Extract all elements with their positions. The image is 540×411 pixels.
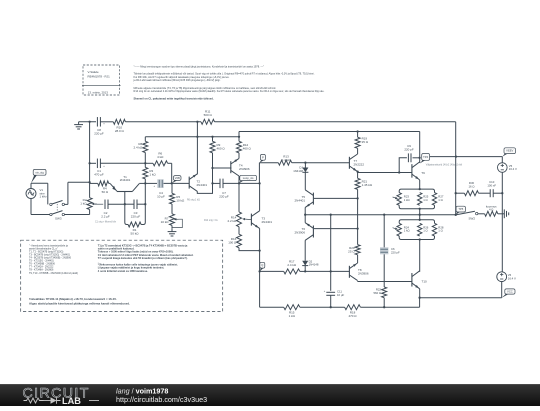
resistor koormus: [485, 211, 498, 216]
svg-text:R14 orig = 1k: R14 orig = 1k: [204, 219, 219, 222]
V6 value label: [508, 273, 516, 280]
T3 base wire: [242, 218, 251, 221]
T7 name label: [354, 159, 365, 167]
label bubble VCC: [502, 289, 515, 298]
R27 value label: [438, 195, 444, 202]
svg-text:2N2222: 2N2222: [354, 163, 365, 167]
wire rail A to R8: [144, 137, 146, 142]
R23 value label: [404, 195, 410, 202]
switch SW3 pole2: [50, 211, 65, 216]
resistor R23: [397, 193, 401, 206]
junction T1 base node: [124, 203, 126, 205]
junction input node: [88, 181, 90, 183]
R7 wiper return wire: [172, 219, 182, 227]
D2 value label: [309, 259, 319, 266]
wire bank2 to T10 collector: [419, 240, 421, 272]
svg-text:500 Ω: 500 Ω: [204, 113, 213, 117]
svg-text:1 kΩ: 1 kΩ: [289, 314, 296, 318]
svg-text:VEEV: VEEV: [506, 149, 513, 153]
junction D2 bottom: [304, 270, 306, 272]
wire T6 base node to R20: [357, 229, 359, 245]
wire input node horizontal: [68, 181, 90, 183]
wire R13 to D1 node: [292, 162, 306, 164]
T4 name label: [239, 164, 250, 172]
switch SW2: [456, 211, 478, 215]
svg-text:4 kΩ: 4 kΩ: [157, 155, 164, 159]
header note para1: [133, 72, 315, 86]
wire R19 top to rail B: [357, 132, 359, 138]
note valjatransistorid: [426, 163, 463, 166]
R2 wiper to C2 wire: [94, 203, 103, 205]
wire P corner down: [258, 163, 260, 184]
svg-text:2.4 kΩ: 2.4 kΩ: [133, 146, 143, 150]
junction T3 collector node: [258, 182, 260, 184]
junction V2B node: [171, 182, 173, 184]
wire R9 node down to C7 wire: [212, 168, 214, 183]
resistor R14 potentiometer: [237, 212, 242, 227]
junction T10 emitter: [418, 297, 420, 299]
svg-text:Algas alatid plaadile kinnituv: Algas alatid plaadile kinnituvad plätkut…: [29, 302, 130, 306]
svg-text:100 nF: 100 nF: [487, 184, 496, 188]
resistor R15: [284, 305, 300, 310]
C2 value label: [101, 211, 110, 219]
wire V5 down: [501, 172, 503, 272]
wire up to input node: [67, 182, 69, 204]
wire V5 top: [501, 157, 503, 163]
wire T10 emitter to VCC: [420, 297, 502, 299]
wire R14 to R16: [238, 227, 240, 234]
wire down to SW3 pole1: [47, 183, 49, 204]
wire SW2 to koormus: [478, 213, 485, 215]
wire C11 branch: [330, 271, 332, 290]
CircuitLab logo symbol: [24, 396, 100, 406]
svg-text:V2B: V2B: [175, 176, 180, 180]
R6 value label: [157, 152, 164, 160]
junction input column top: [88, 121, 90, 123]
label bubble P: [259, 154, 265, 162]
svg-text:220 µF: 220 µF: [94, 132, 104, 136]
svg-text:100 Ω: 100 Ω: [228, 241, 237, 245]
wire V1 bottom down: [30, 199, 32, 215]
svg-text:.: .: [134, 82, 135, 85]
wire D2 to Q wire: [304, 266, 306, 272]
wire R20 to T8 emitter: [357, 255, 359, 263]
wire R2 bottom stub: [89, 210, 91, 215]
junction T3 emitter node: [258, 249, 260, 251]
header note para2: [134, 86, 325, 93]
svg-text:T7 soojendi käega katsudes ehk: T7 soojendi käega katsudes ehk 50 kraadi…: [98, 256, 188, 260]
R14 value label: [228, 215, 238, 223]
wire SW3 pole1 right up: [65, 203, 68, 205]
junction output left: [304, 214, 306, 216]
svg-text:470 µF: 470 µF: [94, 173, 104, 177]
resistor R1: [128, 222, 141, 227]
SW3 label: [55, 217, 62, 221]
wire T7 emitter to T9 base: [358, 172, 412, 174]
wire R9 to T4 base node: [212, 153, 214, 168]
wire x455 vertical: [455, 157, 457, 215]
wire corner down to main wire: [171, 163, 173, 183]
wire V2B node to R5: [171, 183, 173, 193]
R26 value label: [423, 225, 429, 232]
label bubble vin_sig: [31, 169, 46, 183]
svg-text:10 kΩ: 10 kΩ: [176, 199, 185, 203]
koormus label: [486, 204, 497, 211]
wire R30 row left: [456, 192, 465, 194]
svg-text:TP4: TP4: [423, 155, 428, 159]
svg-text:2N4401: 2N4401: [262, 220, 273, 224]
svg-text:4 Ω: 4 Ω: [489, 208, 493, 212]
resistor R5: [170, 193, 175, 204]
svg-text:Q: Q: [261, 263, 263, 267]
C1 value label: [94, 169, 104, 177]
wire D2 node to T8 base: [305, 270, 349, 272]
junction T7 emitter: [356, 170, 358, 172]
R8 value label: [133, 142, 143, 150]
svg-text:50 kΩ: 50 kΩ: [131, 232, 140, 236]
svg-text:1 Ω: 1 Ω: [423, 198, 427, 202]
wire Q to R17: [260, 270, 284, 272]
wire T5 base node to T6 base node: [357, 198, 359, 228]
wire T3 collector up: [259, 183, 261, 210]
wire C2 to T1 base node: [108, 203, 124, 205]
wire T8 collector to T10 base: [358, 281, 412, 283]
svg-text:+: +: [324, 290, 326, 293]
wire V1 top up: [30, 183, 32, 188]
wire rail A to R12: [238, 137, 240, 142]
resistor R3: [143, 167, 148, 179]
C9 value label: [404, 144, 414, 152]
wire C10 to V5 line: [493, 192, 502, 194]
R12 value label: [243, 143, 252, 151]
wire V1 top right: [31, 182, 48, 184]
SW2 label: [469, 217, 476, 221]
bottom note footer lines: [29, 297, 130, 305]
svg-text:2N3906: 2N3906: [239, 167, 250, 171]
svg-text:C1 orig + filtered kile: C1 orig + filtered kile: [95, 221, 117, 224]
resistor R19: [355, 137, 360, 148]
wire D1 to T5 collector: [304, 172, 306, 190]
R10 value label: [115, 125, 125, 133]
source V5: [498, 163, 508, 173]
svg-text:1 kHz: 1 kHz: [40, 195, 48, 199]
T6 name label: [294, 227, 305, 235]
svg-text:16.4 V: 16.4 V: [509, 167, 517, 171]
wire D1 node to T7 base: [305, 162, 349, 164]
C3 value label: [131, 211, 141, 219]
svg-text:VCC: VCC: [507, 290, 513, 294]
wire R9 node to T4 base: [213, 167, 232, 169]
svg-text:2N4401: 2N4401: [120, 178, 131, 182]
note R6 orig: [187, 199, 200, 202]
ground G1 top-left: [74, 122, 83, 129]
junction bank2 top: [419, 219, 421, 221]
wire C7 left: [213, 182, 220, 184]
capacitor C3: [134, 199, 137, 209]
C8 value label: [94, 128, 104, 136]
wire C3 to R1 node: [137, 203, 145, 205]
resistor R22: [382, 287, 387, 298]
junction R3 main wire: [144, 182, 146, 184]
svg-text:Skeemil on CL pakutavad mitte: Skeemil on CL pakutavad mitte tegelikud …: [134, 97, 214, 101]
transistor T7: [349, 154, 357, 172]
resistor R24: [397, 223, 401, 236]
wire V5 wire right: [456, 156, 502, 158]
transistor T8: [349, 263, 357, 281]
svg-text:10 kΩ: 10 kΩ: [161, 220, 170, 224]
wire R16 bottom corner: [239, 248, 260, 251]
resistor R9: [210, 141, 215, 153]
junction R11 left: [196, 121, 198, 123]
junction output corner R30: [455, 192, 457, 194]
T3 name label: [262, 216, 273, 224]
svg-text:10 µF: 10 µF: [157, 194, 165, 198]
svg-text:1 Ω: 1 Ω: [438, 198, 442, 202]
wire T6 collector down to D2: [304, 240, 306, 260]
bottom note col2: [98, 243, 194, 273]
wire C11 to bottom rail: [330, 295, 332, 307]
wire bottom rail left: [260, 306, 284, 308]
wire V1 bottom right: [31, 214, 50, 216]
svg-text:2.4 kΩ: 2.4 kΩ: [287, 263, 297, 267]
junction C9 left bottom: [398, 171, 400, 173]
resistor R7 potentiometer: [170, 214, 180, 226]
resistor R10: [113, 119, 125, 124]
svg-text:2N3906: 2N3906: [358, 271, 369, 275]
wire T1 to R3 node: [139, 182, 145, 184]
capacitor C4: [153, 179, 163, 188]
transistor T9: [412, 162, 420, 180]
svg-text:T10: T10: [422, 280, 428, 284]
wire T7 emitter to R21: [357, 173, 359, 179]
wire T6 base right: [314, 228, 358, 230]
wire C1 to node: [100, 162, 145, 164]
wire C7 right to T4 node: [223, 182, 260, 184]
R4 value label: [102, 187, 109, 195]
junction C11 top: [330, 270, 332, 272]
svg-text:ja R14 abil saab tähised mõõra: ja R14 abil saab tähised mõõrata (30mA) …: [133, 78, 221, 82]
junction R22 bottom: [383, 306, 385, 308]
wire T1 node to C3: [125, 203, 134, 205]
capacitor C11: [324, 290, 335, 295]
wire R3 bottom to main wire: [144, 179, 146, 184]
footer bar: [0, 384, 540, 406]
capacitor C8: [97, 117, 105, 127]
svg-text:1 kΩ: 1 kΩ: [404, 229, 410, 233]
resistor R30: [464, 191, 478, 196]
junction T4 collector node: [238, 182, 240, 184]
svg-text:R6 orig 1 kΩ: R6 orig 1 kΩ: [187, 199, 200, 202]
svg-text:13. märts, 2013: 13. märts, 2013: [88, 91, 108, 95]
wire T5 emitter down: [304, 207, 306, 214]
svg-text:1.45 kΩ: 1.45 kΩ: [362, 183, 373, 187]
T5 name label: [294, 195, 305, 203]
svg-text:460 Ω: 460 Ω: [243, 147, 252, 151]
wire R7 bottom to ground: [171, 225, 173, 228]
junction D1 top: [304, 162, 306, 164]
wire output to C6: [383, 215, 385, 248]
wire T3 emitter down: [259, 228, 261, 250]
capacitor C9: [408, 153, 411, 162]
resistor R25: [418, 193, 422, 206]
junction V5 R30 row: [501, 192, 503, 194]
svg-text:T9, T10 - KT805B - 2SC5200 (14: T9, T10 - KT805B - 2SC5200 (140cm2 pleki…: [29, 272, 78, 275]
transistor T3: [251, 211, 259, 229]
junction rail A right end: [238, 136, 240, 138]
wire right corner down: [455, 122, 457, 157]
T2 name label: [197, 180, 208, 188]
transistor T5: [305, 190, 313, 208]
svg-text:http://circuitlab.com/c3v3ue3: http://circuitlab.com/c3v3ue3: [116, 395, 207, 404]
junction rail B R19: [356, 130, 358, 132]
resistor R26: [418, 223, 422, 236]
label bubble TP5: [456, 206, 466, 215]
label bubble Loop_vis: [239, 175, 257, 183]
R18 value label: [348, 310, 357, 318]
wire R4 to T1: [109, 182, 111, 184]
capacitor C7: [220, 179, 223, 189]
svg-text:25 Ω: 25 Ω: [348, 250, 355, 254]
svg-text:560 Ω: 560 Ω: [373, 291, 381, 295]
resistor R20: [355, 245, 360, 255]
title block text: [88, 70, 111, 94]
junction bank1 mid top: [419, 188, 421, 190]
R1 value label: [131, 228, 140, 236]
wire T9 emitter down: [419, 180, 421, 189]
svg-text:TP5: TP5: [458, 207, 463, 211]
diode D1: [302, 168, 308, 173]
T8 name label: [358, 268, 369, 276]
C9 branch wires: [399, 158, 419, 173]
resistor R13: [278, 160, 291, 165]
resistor R11: [201, 119, 215, 124]
svg-text:220 pF: 220 pF: [391, 251, 400, 255]
wire R11 node down to T2 emitter: [196, 122, 198, 175]
svg-text:220 µF: 220 µF: [131, 215, 141, 219]
svg-text:16 Ω: 16 Ω: [469, 185, 475, 189]
R15 value label: [289, 310, 296, 318]
wire R5 to R7: [171, 204, 173, 214]
wire rail B jog: [238, 132, 240, 137]
svg-text:+: +: [153, 185, 155, 188]
bottom note box: [21, 240, 223, 311]
wire rail B: [239, 131, 420, 133]
header note bold: [134, 97, 214, 101]
junction C9 right: [418, 157, 420, 159]
junction C1 node: [144, 162, 146, 164]
wire bottom rail mid: [300, 306, 345, 308]
resistor R17: [284, 269, 300, 274]
resistor R4: [98, 181, 109, 186]
svg-text:1N4148: 1N4148: [293, 169, 303, 173]
svg-text:1 Ω: 1 Ω: [438, 229, 442, 233]
wire koormus to ground: [498, 213, 502, 215]
V5 value label: [509, 164, 517, 171]
svg-text:T9: T9: [421, 171, 425, 175]
R9 value label: [217, 143, 226, 151]
wire R30 to C10: [479, 192, 491, 194]
T10 name label: [422, 280, 428, 284]
wire input column from top rail: [89, 122, 91, 164]
bank2 rails: [399, 220, 434, 240]
wire Q down to bottom rail: [259, 271, 261, 307]
R11 value label: [204, 110, 213, 118]
wire rail A: [145, 136, 239, 138]
wire R12 to T4 emitter: [238, 153, 240, 159]
R25 value label: [423, 195, 429, 202]
transistor T4: [231, 158, 239, 176]
svg-text:50 Ω: 50 Ω: [102, 190, 109, 194]
wire R10 to R11: [125, 121, 201, 123]
junction rail A R9: [211, 136, 213, 138]
note C1 orig: [95, 221, 117, 224]
R19 value label: [362, 137, 369, 145]
source V6: [497, 272, 507, 282]
junction C11 bottom: [330, 306, 332, 308]
capacitor C10: [490, 189, 493, 197]
svg-text:SW3: SW3: [55, 217, 62, 221]
svg-text:Väljatransistorid 140x2 140cm2: Väljatransistorid 140x2 140cm2 ribil: [426, 163, 463, 166]
SW3 gang dashed link: [56, 204, 58, 212]
junction V5 wire: [455, 155, 457, 157]
svg-text:RE4M1978 - RJ1: RE4M1978 - RJ1: [88, 74, 111, 78]
C10 value label: [487, 180, 496, 187]
wire bottom rail up to emitter wire: [419, 298, 421, 308]
footer url text: [116, 395, 207, 404]
transistor T6: [305, 223, 313, 241]
T1 name label: [120, 175, 131, 182]
svg-text:"------ Mingi versioongon sood: "------ Mingi versioongon soodne tipu sk…: [134, 65, 265, 69]
capacitor C1: [97, 159, 105, 169]
wire T6 emitter up: [304, 215, 306, 223]
R17 value label: [287, 260, 297, 268]
wire C1 node to R3: [144, 163, 146, 167]
svg-text:2.2 µF: 2.2 µF: [101, 215, 110, 219]
svg-text:1 kΩ: 1 kΩ: [80, 202, 87, 206]
resistor R27: [432, 193, 436, 206]
wire TP4 to V5 wire: [430, 156, 456, 158]
label bubble TP4: [420, 154, 430, 164]
wire output rail: [305, 214, 456, 216]
C4 value label: [157, 191, 165, 199]
bank1 rails: [399, 189, 434, 209]
label bubble V2B: [172, 176, 181, 184]
R13 value label: [282, 155, 292, 163]
R2 value label: [80, 198, 87, 206]
R21 value label: [362, 180, 373, 188]
wire corner to C1: [90, 162, 96, 164]
resistor R28: [432, 223, 436, 236]
svg-text:2.2 kΩ: 2.2 kΩ: [228, 219, 238, 223]
diode D2: [302, 261, 308, 266]
svg-text:2N4401: 2N4401: [294, 198, 305, 202]
D1 value label: [293, 166, 303, 173]
svg-text:1 kΩ: 1 kΩ: [149, 173, 156, 177]
wire output rail to bank2: [419, 215, 421, 220]
source V1: [26, 189, 36, 199]
wire C1 node to R6: [145, 162, 153, 164]
wire T7 collector up to R19: [357, 148, 359, 154]
R16 value label: [228, 237, 237, 245]
wire top rail R11 to right corner: [215, 121, 456, 123]
wire R8 to C1 node: [144, 153, 146, 164]
C11 value label: [337, 290, 344, 297]
wire T3 node down to Q: [259, 251, 261, 272]
wire R3 node to C4: [145, 182, 157, 184]
junction bank1 mid bottom: [419, 208, 421, 210]
junction C7 left node: [211, 182, 213, 184]
switch SW3 pole1: [50, 201, 65, 206]
